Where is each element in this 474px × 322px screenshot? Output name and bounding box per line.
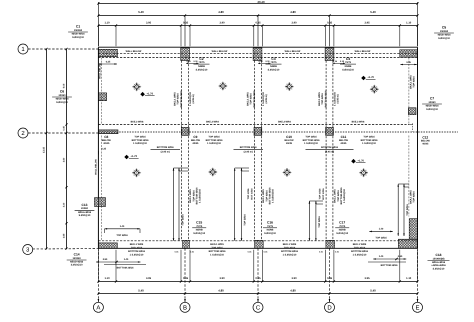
svg-text:1 S.Ø10@10: 1 S.Ø10@10 — [130, 253, 144, 256]
svg-text:0.35: 0.35 — [255, 22, 261, 25]
grid line E extension — [417, 248, 419, 302]
vertical dim bay B-C bottom — [234, 168, 236, 241]
slab marker bottom — [359, 168, 368, 177]
svg-text:1 S.Ø10@10: 1 S.Ø10@10 — [283, 253, 297, 256]
svg-text:30X60: 30X60 — [81, 207, 89, 210]
left edge wall line — [100, 58, 102, 125]
svg-text:3.95: 3.95 — [146, 277, 152, 280]
slab marker top — [132, 82, 141, 91]
svg-text:0.35: 0.35 — [183, 22, 189, 25]
svg-text:BKE.2 WRS: BKE.2 WRS — [131, 121, 144, 124]
column C6 edge — [98, 93, 106, 101]
slab marker top — [285, 82, 294, 91]
bottom bay dimension line — [98, 293, 417, 295]
svg-text:S.Ø10@10: S.Ø10@10 — [196, 68, 208, 71]
svg-text:BOTTOM 4Ø16: BOTTOM 4Ø16 — [253, 90, 256, 107]
svg-text:BKE.2 WRS: BKE.2 WRS — [278, 121, 291, 124]
slab left edge — [97, 47, 99, 248]
column E3 L-shape — [398, 239, 417, 248]
beam band grid 2 — [98, 124, 409, 126]
svg-text:TOP 3Ø16: TOP 3Ø16 — [116, 234, 128, 237]
column D2 — [326, 127, 334, 135]
svg-text:150X60: 150X60 — [72, 257, 81, 260]
svg-text:WALL BELOW: WALL BELOW — [355, 50, 371, 53]
dim below plan right — [373, 258, 406, 260]
slab marker bottom — [283, 168, 292, 177]
svg-text:BOTTOM 3Ø16: BOTTOM 3Ø16 — [240, 146, 257, 149]
beam on grid C — [254, 61, 256, 241]
svg-text:TOP 4Ø16: TOP 4Ø16 — [247, 188, 250, 200]
svg-text:0.35: 0.35 — [327, 277, 333, 280]
svg-text:S.Ø10@10: S.Ø10@10 — [268, 68, 280, 71]
svg-text:40/45: 40/45 — [103, 142, 110, 145]
svg-text:4.80: 4.80 — [218, 289, 224, 293]
svg-text:TOP 3Ø16: TOP 3Ø16 — [244, 214, 247, 226]
grid bubble 1 — [18, 44, 28, 54]
svg-text:5.05: 5.05 — [63, 83, 66, 88]
svg-text:1.40: 1.40 — [379, 255, 384, 258]
svg-text:1 S.Ø10@10: 1 S.Ø10@10 — [210, 253, 224, 256]
svg-text:+1.70: +1.70 — [147, 92, 154, 95]
svg-text:40/45: 40/45 — [192, 142, 199, 145]
svg-text:S.Ø10@10: S.Ø10@10 — [56, 101, 68, 104]
svg-text:0.35: 0.35 — [102, 148, 107, 151]
column C13 edge — [95, 198, 106, 207]
svg-text:0.35: 0.35 — [335, 250, 339, 253]
grid bubble E — [413, 302, 423, 312]
svg-text:S.Ø10@10: S.Ø10@10 — [433, 267, 445, 270]
svg-text:1.40: 1.40 — [120, 225, 125, 228]
svg-text:(4.05 m): (4.05 m) — [337, 94, 340, 103]
dim bay C-D inner right — [369, 230, 393, 232]
notch near C12 — [409, 124, 413, 126]
level mark 2 — [361, 76, 366, 81]
svg-text:WALL BELOW: WALL BELOW — [126, 50, 142, 53]
grid bubble B — [180, 302, 190, 312]
svg-text:3.90: 3.90 — [219, 277, 225, 280]
svg-text:S.Ø10@10: S.Ø10@10 — [426, 108, 438, 111]
svg-text:4.80: 4.80 — [290, 10, 296, 14]
svg-text:TOP 4Ø16: TOP 4Ø16 — [413, 76, 416, 88]
svg-text:2.40: 2.40 — [63, 202, 66, 207]
svg-text:+1.70: +1.70 — [357, 159, 364, 162]
grid line D extension — [329, 248, 331, 302]
svg-text:1 S.Ø10@10: 1 S.Ø10@10 — [343, 188, 346, 202]
svg-text:70/75: 70/75 — [199, 61, 206, 64]
grid line 2 — [28, 132, 98, 134]
svg-text:0.35: 0.35 — [190, 250, 194, 253]
svg-text:(4.05 m): (4.05 m) — [192, 94, 195, 103]
svg-text:5.40: 5.40 — [370, 289, 376, 293]
svg-text:150X60(M): 150X60(M) — [433, 257, 445, 260]
svg-text:BOT 4Ø16: BOT 4Ø16 — [322, 188, 325, 200]
svg-text:TOP 3Ø16: TOP 3Ø16 — [375, 237, 387, 240]
dim below plan left — [96, 261, 141, 263]
svg-text:70/75: 70/75 — [339, 225, 346, 228]
svg-text:BOTTOM 4Ø16: BOTTOM 4Ø16 — [180, 90, 183, 107]
column B1 — [181, 48, 190, 61]
level mark 1 — [140, 92, 145, 97]
svg-text:0.35: 0.35 — [175, 250, 179, 253]
wall below band grid 1 — [98, 52, 417, 54]
svg-text:S.Ø10@10: S.Ø10@10 — [79, 214, 91, 217]
svg-text:A: A — [96, 304, 100, 311]
beam band grid 3 — [98, 240, 417, 242]
svg-text:1.40: 1.40 — [379, 228, 384, 231]
grid bubble 2 — [18, 128, 28, 138]
svg-text:1 S.Ø10@10: 1 S.Ø10@10 — [207, 142, 221, 145]
grid bubble 3 — [23, 245, 33, 255]
svg-text:0.90: 0.90 — [398, 255, 403, 258]
svg-text:5.40: 5.40 — [370, 10, 376, 14]
svg-text:3.60: 3.60 — [63, 157, 66, 162]
svg-text:WALL BELOW: WALL BELOW — [212, 50, 228, 53]
svg-text:1 S.Ø10@10: 1 S.Ø10@10 — [199, 188, 202, 202]
svg-text:S.Ø10@10: S.Ø10@10 — [72, 36, 84, 39]
svg-text:TOP 3Ø16: TOP 3Ø16 — [318, 216, 321, 228]
svg-text:1.10: 1.10 — [104, 277, 110, 280]
grid bubble C — [253, 302, 263, 312]
svg-text:BOTTOM 3Ø16: BOTTOM 3Ø16 — [381, 264, 398, 267]
grid line A extension — [97, 248, 99, 302]
svg-text:40/45: 40/45 — [286, 142, 293, 145]
top overall dimension — [98, 3, 417, 5]
svg-text:+1.70: +1.70 — [367, 76, 374, 79]
dim under column A1 — [99, 63, 117, 65]
svg-text:D: D — [327, 304, 332, 311]
grid bubble A — [93, 302, 103, 312]
svg-text:70/75: 70/75 — [271, 61, 278, 64]
svg-text:3.90: 3.90 — [291, 277, 297, 280]
left edge lower beam line — [100, 136, 102, 241]
svg-text:20.40: 20.40 — [258, 0, 265, 4]
svg-text:13.15: 13.15 — [43, 146, 46, 153]
svg-text:S.Ø10@10: S.Ø10@10 — [342, 68, 354, 71]
right edge beam line — [408, 58, 410, 125]
svg-text:BOTTOM 3Ø16: BOTTOM 3Ø16 — [321, 146, 338, 149]
svg-text:30X60: 30X60 — [59, 94, 67, 97]
left outer dimension line — [46, 49, 48, 249]
vertical dim bay C-D bottom — [308, 201, 310, 241]
vertical dim bay D-E bottom — [397, 184, 399, 236]
svg-text:150X60: 150X60 — [440, 30, 449, 33]
svg-text:(2.95 m): (2.95 m) — [325, 151, 334, 154]
svg-text:40/45: 40/45 — [340, 142, 347, 145]
svg-text:BKE.2 WRS: BKE.2 WRS — [352, 121, 365, 124]
svg-text:BOTTOM 3Ø16: BOTTOM 3Ø16 — [157, 146, 174, 149]
svg-text:3.95: 3.95 — [364, 22, 370, 25]
svg-text:150X60: 150X60 — [74, 29, 83, 32]
column A2 strip — [98, 130, 118, 134]
svg-text:0.35: 0.35 — [264, 250, 268, 253]
svg-text:C: C — [256, 304, 261, 311]
column C2i — [254, 127, 262, 135]
svg-text:70/75: 70/75 — [196, 225, 203, 228]
column A1 — [98, 49, 117, 56]
column C1i — [253, 48, 262, 61]
svg-text:BOTTOM 3Ø16: BOTTOM 3Ø16 — [117, 267, 134, 270]
slab marker top — [370, 85, 379, 94]
level mark 3 — [124, 155, 129, 160]
grid line B extension — [184, 248, 186, 302]
svg-text:TOP 3Ø16: TOP 3Ø16 — [182, 214, 185, 226]
svg-text:0.45: 0.45 — [63, 125, 66, 130]
svg-text:1.10: 1.10 — [406, 277, 412, 280]
left inner dimension line — [66, 49, 68, 249]
svg-text:0.35: 0.35 — [183, 277, 189, 280]
svg-text:1 S.Ø10@10: 1 S.Ø10@10 — [133, 142, 147, 145]
svg-text:0.35: 0.35 — [248, 250, 252, 253]
svg-text:1.65: 1.65 — [63, 233, 66, 238]
svg-text:1.10: 1.10 — [104, 22, 110, 25]
svg-text:5.40: 5.40 — [138, 10, 144, 14]
slab marker bottom — [208, 168, 217, 177]
vertical dim bay A-B bottom — [173, 168, 175, 241]
svg-text:0.35: 0.35 — [255, 277, 261, 280]
svg-text:TOP 4Ø16: TOP 4Ø16 — [413, 191, 416, 203]
svg-text:S.Ø10@10: S.Ø10@10 — [438, 37, 450, 40]
slab bottom edge — [98, 247, 417, 249]
beam on grid B — [181, 61, 183, 241]
grid bubble D — [325, 302, 335, 312]
svg-text:1 S.Ø10@10: 1 S.Ø10@10 — [272, 188, 275, 202]
grid line C extension — [257, 248, 259, 302]
svg-text:B: B — [183, 304, 187, 311]
column B3 — [183, 240, 190, 248]
svg-text:3.90: 3.90 — [219, 22, 225, 25]
svg-text:E: E — [415, 304, 419, 311]
grid line 3 — [33, 248, 99, 250]
column A3 — [98, 243, 117, 248]
svg-text:+1.70: +1.70 — [131, 155, 138, 158]
svg-text:BOT 4Ø16: BOT 4Ø16 — [250, 188, 253, 200]
svg-text:S.Ø10@10: S.Ø10@10 — [71, 264, 83, 267]
svg-text:1 S.Ø10@10: 1 S.Ø10@10 — [362, 142, 376, 145]
svg-text:1.10: 1.10 — [406, 22, 412, 25]
grid line 1 — [28, 48, 98, 50]
bottom segment dimension line — [98, 281, 417, 283]
svg-text:S.Ø10@10: S.Ø10@10 — [336, 232, 348, 235]
svg-text:1 S.Ø10@10: 1 S.Ø10@10 — [304, 142, 318, 145]
svg-text:BOTTOM 4Ø16: BOTTOM 4Ø16 — [324, 90, 327, 107]
svg-text:0.35: 0.35 — [319, 250, 323, 253]
svg-text:0.90: 0.90 — [103, 258, 108, 261]
svg-text:0.35: 0.35 — [406, 61, 411, 64]
svg-text:WALL BELOW: WALL BELOW — [99, 62, 102, 78]
column E1 — [400, 50, 418, 57]
slab right edge — [417, 47, 419, 248]
svg-text:4.80: 4.80 — [290, 289, 296, 293]
slab marker bottom — [132, 168, 141, 177]
column B2 — [181, 127, 189, 135]
level mark 4 — [351, 159, 356, 164]
svg-text:0.35: 0.35 — [327, 22, 333, 25]
dim under column E1 — [400, 64, 417, 66]
svg-text:1.40: 1.40 — [124, 258, 129, 261]
svg-text:WALL BELOW: WALL BELOW — [285, 50, 301, 53]
svg-text:S.Ø10@10: S.Ø10@10 — [193, 232, 205, 235]
column C7 edge — [408, 108, 416, 115]
svg-text:(2.95 m): (2.95 m) — [244, 151, 253, 154]
slab marker top — [219, 82, 228, 91]
slab top edge — [98, 46, 417, 48]
svg-text:TOP 3Ø16: TOP 3Ø16 — [406, 204, 409, 216]
svg-text:BKE.2 WRS: BKE.2 WRS — [206, 121, 219, 124]
svg-text:5.40: 5.40 — [138, 289, 144, 293]
svg-text:40/45: 40/45 — [422, 142, 429, 145]
svg-text:3.90: 3.90 — [291, 22, 297, 25]
svg-text:(2.95 m): (2.95 m) — [161, 151, 170, 154]
column D1 — [325, 48, 334, 61]
svg-text:70/75: 70/75 — [345, 61, 352, 64]
top segment dimension line — [98, 25, 417, 27]
svg-text:30X60: 30X60 — [429, 101, 437, 104]
dim top-left inner bay3 — [105, 228, 141, 230]
beam on grid D — [325, 61, 327, 241]
top bay dimension line — [98, 15, 417, 17]
svg-text:4.80: 4.80 — [218, 10, 224, 14]
column D3 — [326, 240, 335, 248]
svg-text:3.95: 3.95 — [146, 22, 152, 25]
svg-text:1 S.Ø10@10: 1 S.Ø10@10 — [353, 253, 367, 256]
column C3i — [255, 240, 264, 248]
svg-text:S.Ø10@10: S.Ø10@10 — [264, 232, 276, 235]
svg-text:TOP 4Ø16: TOP 4Ø16 — [319, 188, 322, 200]
svg-text:0.35: 0.35 — [106, 60, 111, 63]
svg-text:WALL BELOW: WALL BELOW — [95, 158, 98, 174]
svg-text:70/75: 70/75 — [267, 225, 274, 228]
svg-text:(4.05 m): (4.05 m) — [265, 94, 268, 103]
svg-text:3.95: 3.95 — [364, 277, 370, 280]
